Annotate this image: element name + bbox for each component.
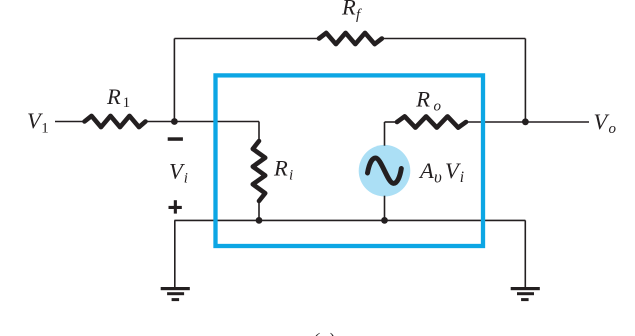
svg-text:i: i [289, 168, 293, 184]
label Ri [273, 156, 293, 184]
node: Ri bottom junction [256, 217, 263, 224]
svg-text:o: o [609, 121, 617, 137]
label Ro [415, 87, 441, 115]
ground (right) [511, 287, 540, 301]
resistor Ri [253, 141, 265, 201]
svg-text:i: i [184, 170, 188, 186]
svg-text:R: R [106, 84, 121, 109]
wire: source bottom lead [384, 196, 386, 221]
wire: Ro left lead [385, 121, 398, 123]
label Vo [594, 109, 617, 137]
wire: Ri bottom lead [258, 201, 260, 220]
wire: Ri top lead [258, 122, 260, 142]
resistor Rf [319, 33, 382, 44]
resistor Ro [397, 116, 466, 127]
svg-text:V: V [445, 158, 461, 183]
dependent source AvVi [359, 145, 411, 197]
wire: input from V1 to R1 [55, 121, 85, 123]
wire: bottom rail [174, 219, 525, 221]
svg-text:R: R [273, 156, 288, 181]
ground (left) [161, 287, 190, 301]
svg-text:R: R [415, 87, 430, 112]
label R1 [106, 84, 130, 111]
label AvVi [418, 158, 464, 186]
wire: feedback top left segment [174, 38, 319, 40]
label Vi [169, 159, 188, 187]
minus sign (inverting input) [168, 137, 183, 141]
node: output [522, 118, 529, 125]
svg-text:1: 1 [41, 121, 49, 137]
sine symbol [368, 158, 402, 183]
amplifier box (blue outline) [216, 75, 484, 246]
svg-text:(a): (a) [313, 330, 335, 336]
wire: feedback vertical left [173, 39, 175, 122]
svg-text:i: i [460, 169, 464, 186]
wire: feedback top right segment [382, 38, 526, 40]
wire: right ground drop [524, 220, 526, 287]
wire: left ground drop [174, 220, 176, 287]
svg-text:υ: υ [434, 167, 442, 186]
svg-text:V: V [594, 109, 610, 134]
wire: feedback vertical right down to output node [524, 39, 526, 122]
label Rf [341, 0, 362, 23]
svg-text:A: A [418, 158, 434, 183]
svg-text:R: R [341, 0, 356, 20]
label V1 [27, 108, 49, 137]
resistor R1 [85, 116, 146, 127]
svg-text:1: 1 [123, 95, 131, 111]
plus sign (non-inverting input) [169, 200, 182, 213]
wire: R1 to Ri top [146, 121, 260, 123]
node: input (inverting) [171, 118, 178, 125]
svg-text:o: o [434, 99, 442, 115]
wire: Ro to Vo [466, 121, 589, 123]
svg-text:V: V [169, 159, 185, 184]
node: source bottom junction [381, 217, 388, 224]
svg-text:f: f [356, 7, 362, 23]
wire: source top lead [384, 122, 386, 146]
